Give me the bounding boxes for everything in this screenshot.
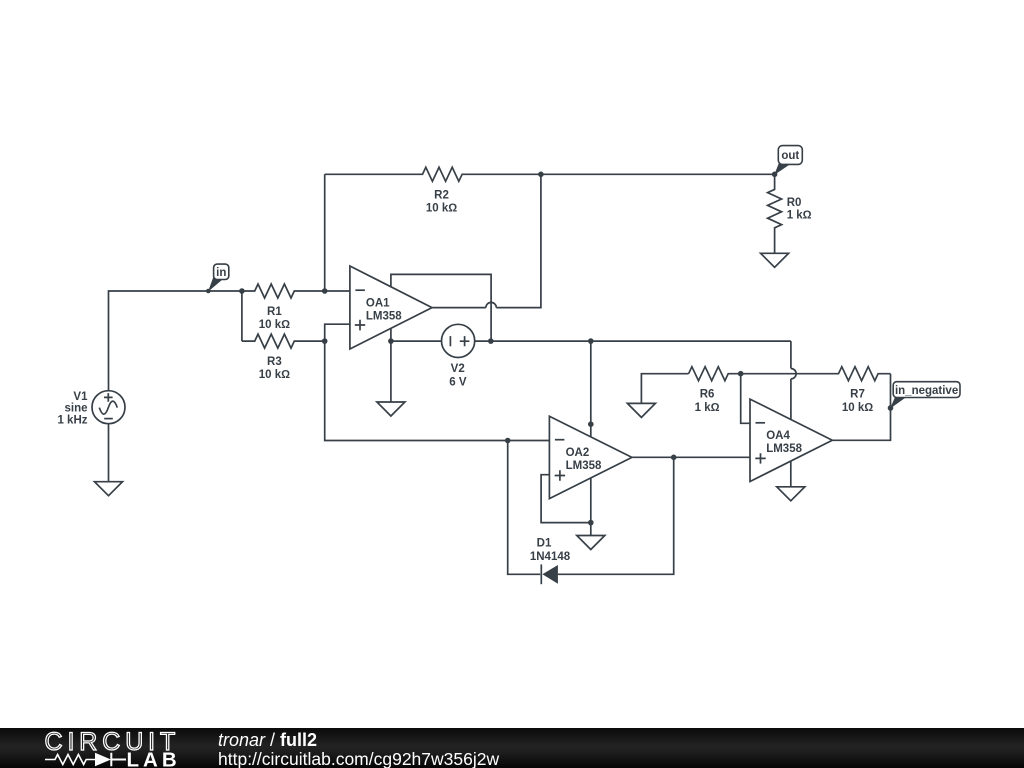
flag in — [208, 264, 229, 292]
svg-text:10 kΩ: 10 kΩ — [842, 402, 873, 414]
voltage source V2 — [442, 324, 475, 388]
wire R1 junction down to R3 — [241, 291, 243, 341]
node R6/R7 junction — [738, 371, 744, 377]
node R1 output junction — [322, 288, 328, 294]
node out — [772, 172, 778, 178]
op-amp OA2 — [549, 416, 632, 498]
svg-text:1N4148: 1N4148 — [530, 551, 571, 563]
flag in_negative — [890, 382, 960, 409]
wire R2 junction to out node — [541, 173, 775, 175]
wire OA2 noninverting loop to V- pin — [541, 475, 591, 523]
flag out — [774, 146, 802, 175]
logo LAB text — [127, 749, 181, 768]
svg-text:tronar / full2: tronar / full2 — [218, 730, 317, 750]
wire V1 top to input row — [109, 291, 242, 391]
svg-text:OA1: OA1 — [366, 297, 390, 309]
node OA2 output junction — [671, 455, 677, 461]
svg-text:LM358: LM358 — [766, 443, 802, 455]
footer bar — [0, 728, 1024, 768]
svg-text:sine: sine — [64, 403, 87, 415]
wire power rail V- side — [391, 340, 442, 342]
ground below OA1 — [377, 402, 405, 416]
ground below OA2 — [577, 536, 605, 550]
wire V1 bottom to ground — [108, 424, 110, 482]
node OA2 V+ terminal — [588, 421, 594, 427]
node in (attach dot) — [206, 289, 211, 294]
wire OA1 noninverting corner down to OA2 inverting row — [325, 324, 550, 440]
svg-text:1 kΩ: 1 kΩ — [787, 210, 812, 222]
svg-text:10 kΩ: 10 kΩ — [259, 369, 290, 381]
svg-text:R1: R1 — [267, 306, 282, 318]
ground below OA4 — [777, 487, 805, 501]
logo resistor-diode symbol — [45, 753, 126, 766]
wire OA2 V- pin stub — [590, 478, 592, 523]
svg-text:V2: V2 — [451, 363, 465, 375]
svg-text:OA2: OA2 — [566, 447, 590, 459]
resistor R2 — [325, 167, 541, 214]
svg-text:6 V: 6 V — [449, 377, 467, 389]
svg-text:LAB: LAB — [127, 749, 181, 768]
resistor R1 — [242, 284, 325, 331]
svg-text:1 kHz: 1 kHz — [57, 414, 87, 426]
node V2 plus junction — [488, 338, 494, 344]
resistor R3 — [242, 334, 325, 381]
svg-text:in: in — [216, 267, 226, 279]
wire OA2 output to OA4 noninverting input — [632, 456, 750, 458]
svg-text:D1: D1 — [537, 537, 552, 549]
resistor R7 — [741, 367, 891, 414]
wire OA4 V- pin to ground — [790, 461, 792, 487]
svg-text:R7: R7 — [850, 388, 865, 400]
svg-text:LM358: LM358 — [366, 310, 402, 322]
node OA1 V- junction — [388, 338, 394, 344]
ground below R0 — [761, 253, 789, 267]
svg-text:in_negative: in_negative — [895, 385, 958, 397]
voltage source V1 sine — [57, 391, 125, 427]
node OA2 V- junction — [588, 520, 594, 526]
node R3 output junction — [322, 338, 328, 344]
wire D1 branch down from OA2 inverting node — [508, 441, 541, 575]
wire R6 left to ground corner — [641, 374, 688, 404]
svg-text:R6: R6 — [700, 388, 715, 400]
wire OA1 V+ pin to V2 positive rail — [391, 274, 491, 341]
wire R1 junction to OA1 inverting input — [325, 290, 350, 292]
svg-text:10 kΩ: 10 kΩ — [426, 202, 457, 214]
node D1 branch junction — [505, 438, 511, 444]
svg-text:10 kΩ: 10 kΩ — [259, 319, 290, 331]
logo CIRCUIT text — [45, 728, 181, 756]
wire OA2 V+ drop — [590, 341, 592, 437]
wire OA1 output with hop over V+ drop — [432, 174, 541, 307]
svg-text:R3: R3 — [267, 356, 282, 368]
svg-text:out: out — [781, 150, 799, 162]
node in_negative attach — [888, 405, 894, 411]
svg-text:1 kΩ: 1 kΩ — [695, 402, 720, 414]
svg-text:R2: R2 — [434, 189, 449, 201]
svg-text:R0: R0 — [787, 197, 802, 209]
wire OA1 V- pin — [390, 328, 392, 341]
wire R6 junction down to OA4 inverting input — [741, 374, 750, 424]
resistor R6 — [689, 367, 741, 414]
node power rail T to OA2 V+ — [588, 338, 594, 344]
svg-text:http://circuitlab.com/cg92h7w3: http://circuitlab.com/cg92h7w356j2w — [218, 749, 499, 768]
wire R1 junction up to R2 rail — [324, 174, 326, 291]
wire power rail to OA4 V+ with hop over R6-R7 row — [491, 341, 796, 420]
svg-text:V1: V1 — [73, 391, 88, 403]
resistor R0 — [768, 174, 812, 253]
wire OA2 V- to ground — [590, 523, 592, 536]
svg-text:LM358: LM358 — [566, 460, 602, 472]
ground below V1 — [95, 482, 123, 496]
wire R7 right down to OA4 output — [832, 374, 890, 441]
wire OA1 V- to ground — [390, 341, 392, 402]
wire D1 anode to OA2 output — [558, 457, 674, 574]
svg-text:OA4: OA4 — [766, 430, 790, 442]
diode D1 — [530, 537, 571, 584]
wire V2 plus lead — [475, 340, 491, 342]
op-amp OA1 — [350, 266, 432, 349]
footer url — [218, 749, 499, 768]
ground below R6 — [627, 403, 655, 417]
footer title tronar / full2 — [218, 730, 317, 750]
op-amp OA4 — [750, 399, 832, 481]
node R2 / OA1 output junction — [538, 172, 544, 178]
node R1/R3 split junction — [239, 288, 245, 294]
